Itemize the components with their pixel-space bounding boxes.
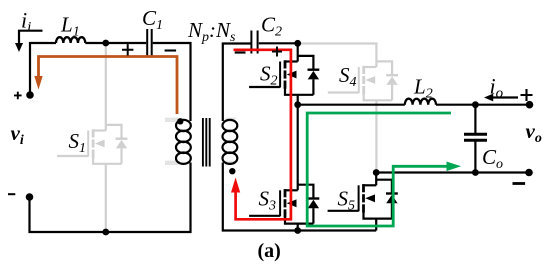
wire S1 source branch (gray) bbox=[105, 164, 107, 231]
svg-text:L1: L1 bbox=[60, 13, 80, 40]
red arrowhead bbox=[231, 178, 240, 193]
transformer secondary winding bbox=[223, 120, 238, 164]
wire C1 to primary, corner down bbox=[153, 43, 191, 121]
svg-text:C1: C1 bbox=[142, 6, 163, 33]
arrow i_o bbox=[492, 96, 518, 98]
wire S5 source corner to bottom rail bbox=[375, 219, 377, 231]
capacitor C2 bbox=[251, 31, 257, 54]
transformer core bbox=[203, 118, 210, 167]
wire top-left rail with corner down to + input bbox=[30, 43, 56, 95]
svg-text:vo: vo bbox=[526, 119, 542, 146]
transformer primary winding bbox=[176, 120, 191, 164]
wire secondary bottom lead to mid-bottom rail bbox=[223, 163, 376, 231]
wire S4 drain branch (gray) bbox=[299, 44, 376, 68]
wire S1 drain branch (gray) bbox=[105, 44, 107, 131]
node Co top bbox=[472, 101, 479, 108]
inductor L1 bbox=[56, 37, 85, 43]
minus input bbox=[8, 193, 15, 195]
plus output bbox=[521, 89, 533, 101]
wire green output current path bbox=[307, 113, 451, 226]
wire S4 source to S5 drain (gray) bbox=[375, 100, 377, 173]
wire S5 drain from dot bbox=[375, 173, 377, 186]
node S1 bottom bbox=[102, 229, 109, 236]
transistor S3 bbox=[249, 185, 319, 224]
wire S3 source to bottom rail bbox=[297, 224, 299, 231]
wire red secondary current path bbox=[234, 50, 291, 220]
minus C2 bbox=[235, 51, 246, 53]
node - output terminal bbox=[525, 169, 533, 177]
primary polarity dot bbox=[177, 118, 183, 124]
plus C1 bbox=[122, 44, 133, 55]
transistor S4 (inactive MOSFET) bbox=[328, 61, 398, 100]
node S3 bottom bbox=[294, 227, 301, 234]
inductor L2 bbox=[405, 99, 436, 105]
node S2/S3 mid bbox=[294, 101, 301, 108]
svg-text:io: io bbox=[490, 74, 504, 102]
arrow i_i bbox=[19, 31, 43, 44]
wire C2 to S2 node bbox=[259, 42, 298, 44]
wire orange input current path bbox=[39, 57, 178, 115]
svg-text:S3: S3 bbox=[259, 187, 277, 214]
node Co bottom bbox=[472, 169, 479, 176]
secondary polarity dot bbox=[229, 168, 235, 174]
wire S2 drain bbox=[297, 43, 299, 61]
wire L1 to C1 bbox=[85, 42, 146, 44]
transistor S5 bbox=[328, 180, 398, 219]
capacitor Co branch top bbox=[474, 105, 476, 133]
capacitor Co plates bbox=[464, 134, 487, 140]
faint gray artifact strips at winding ends bbox=[165, 118, 236, 165]
wire bottom-left rail bbox=[30, 163, 191, 233]
wire S3 drain bbox=[297, 105, 299, 191]
capacitor C1 bbox=[147, 29, 152, 57]
plus C2 bbox=[272, 47, 282, 57]
node L1/S1 bbox=[102, 40, 109, 47]
svg-text:ii: ii bbox=[21, 8, 31, 36]
transistor S1 (inactive MOSFET) bbox=[57, 125, 127, 164]
node + input terminal bbox=[26, 91, 34, 99]
svg-text:C2: C2 bbox=[261, 13, 282, 40]
wire mid rail S2/S3 node to L2 bbox=[298, 104, 405, 106]
svg-text:S2: S2 bbox=[260, 62, 278, 89]
minus C1 bbox=[165, 49, 177, 51]
transistor S2 bbox=[249, 56, 319, 95]
svg-text:vi: vi bbox=[11, 121, 24, 148]
svg-text:(a): (a) bbox=[258, 240, 281, 262]
node S5 drain bbox=[373, 169, 380, 176]
green arrowhead bbox=[447, 162, 462, 172]
svg-text:L2: L2 bbox=[413, 75, 433, 102]
wire secondary top lead to C2 bbox=[223, 44, 251, 122]
node C2/S2/S4 bbox=[294, 40, 301, 47]
svg-text:Co: Co bbox=[482, 145, 503, 172]
svg-text:S1: S1 bbox=[69, 129, 87, 156]
wire S2 source to mid node bbox=[297, 95, 299, 105]
node - input terminal bbox=[26, 193, 34, 201]
plus input bbox=[14, 92, 22, 100]
svg-text:Np:Ns: Np:Ns bbox=[187, 18, 236, 45]
wire bottom output rail bbox=[376, 171, 529, 173]
orange arrowhead bbox=[34, 76, 42, 90]
node + output terminal bbox=[526, 101, 534, 109]
capacitor Co branch bottom bbox=[474, 141, 476, 173]
svg-text:S5: S5 bbox=[338, 187, 356, 214]
wire L2 to + output bbox=[436, 104, 530, 106]
svg-text:S4: S4 bbox=[339, 63, 357, 90]
minus output bbox=[513, 182, 526, 185]
